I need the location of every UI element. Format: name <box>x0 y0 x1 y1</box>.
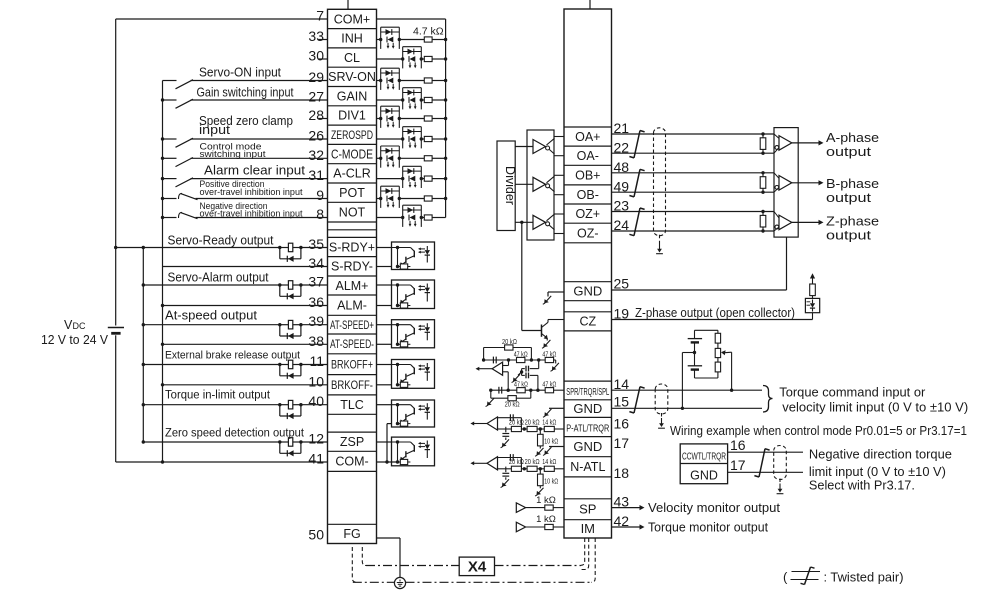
svg-text:OZ-: OZ- <box>577 226 599 240</box>
resistor 4.7k A-CLR <box>424 176 432 181</box>
pin number 33 <box>308 28 324 44</box>
svg-text:GAIN: GAIN <box>337 90 368 104</box>
relay S-RDY <box>278 243 303 262</box>
switch Servo-ON input <box>163 80 328 89</box>
pin number 17 ccwtl <box>730 457 746 473</box>
label limit input <box>809 464 946 479</box>
label velocity limit input <box>782 400 968 415</box>
svg-text:47 kΩ: 47 kΩ <box>542 379 556 388</box>
op-amp SPR input stage <box>476 345 559 392</box>
svg-text:Divider: Divider <box>503 166 517 205</box>
pin number 39 <box>308 313 324 329</box>
brace torque command <box>763 386 773 413</box>
resistor 4.7k SRV-ON <box>424 78 432 83</box>
label 20k bottom <box>505 399 520 408</box>
svg-text:Servo-Ready output: Servo-Ready output <box>168 233 274 247</box>
wire GND 17 stub <box>543 447 564 456</box>
wire input row A-CLR <box>377 177 448 180</box>
label Torque command input <box>779 385 926 400</box>
svg-text:Torque monitor output: Torque monitor output <box>648 520 769 534</box>
label At-speed output <box>165 308 258 322</box>
label Negative direction over-travel inhibition input <box>200 201 303 220</box>
pin label AT-SPEED+ <box>330 320 374 332</box>
photocoupler output TLC <box>377 400 435 427</box>
photocoupler input DIV1 <box>379 106 401 128</box>
svg-text:18: 18 <box>614 465 630 481</box>
svg-text:DIV1: DIV1 <box>338 109 366 123</box>
wire TLC return to COM- <box>385 424 391 464</box>
wire stub unconnected input <box>319 118 328 120</box>
arrow torque monitor <box>612 524 645 529</box>
label Torque in-limit output <box>165 390 271 402</box>
pin number 9 <box>316 187 324 203</box>
svg-text:OA+: OA+ <box>575 130 600 144</box>
transistor CZ open-collector <box>522 222 564 348</box>
divider block <box>497 141 517 231</box>
wire S-RDY- line <box>163 266 328 268</box>
right pin number 24 <box>614 217 630 233</box>
svg-text:ZEROSPD: ZEROSPD <box>331 130 373 142</box>
wire AT-SPEED- line <box>161 343 328 346</box>
right pin number 42 <box>614 513 630 529</box>
pin number 16 ccwtl <box>730 437 746 453</box>
svg-text:Zero speed detection output: Zero speed detection output <box>165 427 305 439</box>
photocoupler output ALM <box>377 280 435 309</box>
wire input row ZEROSPD <box>377 137 448 140</box>
svg-text:Z-phase: Z-phase <box>826 214 879 228</box>
legend twisted pair <box>783 567 904 585</box>
svg-text:25: 25 <box>614 276 630 292</box>
external pull-up for CZ <box>805 273 819 319</box>
photocoupler input NOT <box>401 205 423 227</box>
twisted pair mark ccwtl <box>754 449 769 477</box>
svg-text:SP: SP <box>579 502 596 517</box>
wire ALM- line <box>161 304 328 307</box>
pin label COM+ <box>334 12 370 26</box>
svg-text:14 kΩ: 14 kΩ <box>542 457 556 466</box>
line driver box <box>527 130 554 240</box>
svg-text:AT-SPEED+: AT-SPEED+ <box>330 320 374 332</box>
label Alarm clear input <box>204 164 306 178</box>
svg-text:47 kΩ: 47 kΩ <box>514 379 528 388</box>
label 47k row1 <box>514 349 557 358</box>
svg-text:B-phase: B-phase <box>826 177 879 191</box>
wire input row GAIN <box>377 98 448 101</box>
wire stub unconnected input <box>319 39 328 41</box>
wire GND 25 to receiver <box>612 237 787 290</box>
pin number 37 <box>308 274 324 290</box>
svg-text:input: input <box>199 123 231 137</box>
svg-text:COM-: COM- <box>335 455 368 469</box>
svg-text:CL: CL <box>344 51 360 65</box>
svg-text:12 V to 24 V: 12 V to 24 V <box>41 333 109 347</box>
pin number 38 <box>308 333 324 349</box>
pin number 26 <box>308 128 324 144</box>
svg-text:20 kΩ: 20 kΩ <box>525 417 540 426</box>
right pin label N-ATL 18 <box>570 460 605 474</box>
resistor network SPR lower <box>486 387 564 407</box>
photocoupler output BRKOFF <box>377 360 435 389</box>
label B-phase output <box>826 177 879 205</box>
svg-text:Gain switching input: Gain switching input <box>197 86 294 100</box>
svg-text:17: 17 <box>730 457 746 473</box>
svg-text:1 kΩ: 1 kΩ <box>536 514 556 525</box>
svg-text:14 kΩ: 14 kΩ <box>542 417 556 426</box>
svg-text:SPR/TRQR/SPL: SPR/TRQR/SPL <box>566 386 609 398</box>
svg-text:40: 40 <box>308 393 324 409</box>
photocoupler input ZEROSPD <box>401 127 423 149</box>
cable shield FG drop <box>352 547 366 582</box>
right pin label GND 17 <box>573 439 602 454</box>
svg-text:35: 35 <box>308 236 324 252</box>
wire encoder pair B minus <box>612 191 775 194</box>
svg-text:GND: GND <box>573 439 602 454</box>
right pin number 43 <box>614 494 630 510</box>
wire COM+ to VDC rail <box>116 18 328 20</box>
pin label S-RDY+ <box>329 240 375 254</box>
svg-text:TLC: TLC <box>340 398 364 412</box>
photocoupler output AT-SPEED <box>377 320 435 348</box>
wire COM- into ZSP box <box>377 461 398 463</box>
wire BRKOFF- line <box>161 383 328 386</box>
svg-text:Z-phase output (open collector: Z-phase output (open collector) <box>635 306 795 320</box>
pin number 8 <box>316 206 324 222</box>
label VDC <box>64 318 86 332</box>
photocoupler input C-MODE <box>379 146 401 168</box>
wire S-RDY+ line <box>142 246 328 249</box>
svg-text:GND: GND <box>690 468 718 482</box>
svg-text:37: 37 <box>308 274 324 290</box>
relay BRKOFF <box>278 360 303 379</box>
right pin number 22 <box>614 139 630 155</box>
right pin number 17 <box>614 435 630 451</box>
svg-text:16: 16 <box>730 437 746 453</box>
relay ALM <box>278 281 303 300</box>
label 20k top <box>502 337 517 346</box>
pin number 36 <box>308 294 324 310</box>
svg-text:FG: FG <box>343 527 360 541</box>
wire input row SRV-ON <box>377 79 448 82</box>
svg-text:X4: X4 <box>468 559 487 576</box>
photocoupler input CL <box>401 47 423 69</box>
termination resistor B <box>760 173 766 192</box>
resistor 4.7k DIV1 <box>424 116 432 121</box>
pin number 27 <box>308 89 324 105</box>
label Servo-Ready output <box>168 233 274 247</box>
receiver box <box>774 128 798 238</box>
pin label BRKOFF+ <box>331 360 373 372</box>
pin number 35 <box>308 236 324 252</box>
svg-text:10 kΩ: 10 kΩ <box>544 476 558 485</box>
wire COM- return <box>116 460 328 463</box>
pin label POT <box>339 186 365 200</box>
right pin number 14 <box>614 376 630 392</box>
photocoupler input A-CLR <box>401 166 423 188</box>
svg-text:20 kΩ: 20 kΩ <box>505 399 520 408</box>
svg-text:ALM-: ALM- <box>337 298 367 312</box>
svg-text:Velocity monitor output: Velocity monitor output <box>648 501 781 515</box>
svg-text:output: output <box>826 191 872 205</box>
switch POT inhibition input <box>161 193 328 200</box>
wire encoder pair Z plus <box>612 210 775 213</box>
svg-text:OB-: OB- <box>577 188 599 202</box>
wire stub unconnected input <box>319 58 328 60</box>
right pin label OZ- 24 <box>577 226 599 240</box>
connector right column <box>564 9 612 538</box>
cable shield capsule 14-15 <box>655 384 668 428</box>
svg-text:1 kΩ: 1 kΩ <box>536 495 556 506</box>
right pin number 25 <box>614 276 630 292</box>
wire encoder pair A minus <box>612 152 775 155</box>
pin number 7 <box>316 8 324 24</box>
wire encoder pair A plus <box>612 132 775 135</box>
connector CCWTL box <box>680 444 727 484</box>
wire right column top stub <box>589 0 591 9</box>
twisted pair mark A <box>629 131 644 158</box>
pin number 41 <box>308 451 324 467</box>
label 12 V to 24 V <box>41 333 109 347</box>
svg-text:CCWTL/TRQR: CCWTL/TRQR <box>682 451 726 462</box>
svg-text:P-ATL/TRQR: P-ATL/TRQR <box>566 422 609 434</box>
svg-text:IM: IM <box>581 521 595 536</box>
pin number 30 <box>308 48 324 64</box>
wire GND 15 stub <box>543 408 564 417</box>
line driver Z-phase <box>515 214 564 234</box>
relay AT-SPEED <box>278 320 303 339</box>
label Speed zero clamp input <box>199 114 293 137</box>
wire left column top stub <box>347 0 349 9</box>
wire input row DIV1 <box>377 117 448 120</box>
svg-text:A-CLR: A-CLR <box>333 167 371 181</box>
right pin number 19 <box>614 306 630 322</box>
battery VDC <box>108 328 124 334</box>
arrow Z-phase output <box>792 220 824 225</box>
pin label BRKOFF- <box>331 380 373 392</box>
svg-text:34: 34 <box>308 255 324 271</box>
svg-text:26: 26 <box>308 128 324 144</box>
switch NOT inhibition input <box>161 212 328 219</box>
pin label INH <box>341 32 363 46</box>
switch Speed zero clamp input <box>161 137 328 147</box>
junction divider Z to CZ <box>520 221 523 224</box>
label External brake release output <box>165 350 300 362</box>
svg-text:DC: DC <box>73 321 86 331</box>
label Z-phase output <box>826 214 879 242</box>
wire FG to earth <box>377 538 401 578</box>
svg-text:ALM+: ALM+ <box>335 279 368 293</box>
pin number 50 <box>308 527 324 543</box>
wire AT-SPEED+ line <box>142 323 328 326</box>
switch Control mode switching input <box>161 157 328 167</box>
right pin number 21 <box>614 120 630 136</box>
right pin label OZ+ 23 <box>575 207 600 221</box>
label Zero speed detection output <box>165 427 305 439</box>
svg-text:20 kΩ: 20 kΩ <box>509 417 524 426</box>
right pin label OB+ 48 <box>575 168 600 182</box>
twisted pair mark Z <box>629 208 644 236</box>
svg-text:30: 30 <box>308 48 324 64</box>
resistor 4.7k INH <box>424 37 432 42</box>
svg-text:38: 38 <box>308 333 324 349</box>
label Negative direction torque <box>809 446 952 461</box>
svg-text:12: 12 <box>308 431 324 447</box>
label Servo-Alarm output <box>168 271 269 285</box>
photocoupler output ZSP <box>377 437 435 466</box>
connector X4 box <box>459 557 494 576</box>
pin label FG <box>343 527 360 541</box>
cable run lower <box>353 581 592 583</box>
switch Alarm clear input <box>161 177 328 187</box>
pin number 10 <box>308 373 324 389</box>
pin label AT-SPEED- <box>330 339 374 351</box>
pin number 28 <box>308 107 324 123</box>
svg-text:output: output <box>826 145 872 159</box>
svg-text:7: 7 <box>316 8 324 24</box>
pin number 29 <box>308 69 324 85</box>
photocoupler input SRV-ON <box>379 68 401 90</box>
filter capacitors SPR <box>512 360 540 392</box>
svg-text:over-travel inhibition input: over-travel inhibition input <box>200 208 303 219</box>
svg-text:S-RDY+: S-RDY+ <box>329 240 375 254</box>
svg-text:output: output <box>826 229 872 243</box>
right pin label P-ATL/TRQR 16 <box>566 422 609 434</box>
wire CZ open collector <box>612 319 813 321</box>
resistor 4.7k CL <box>424 56 432 61</box>
svg-text:: Twisted pair): : Twisted pair) <box>824 570 904 585</box>
svg-text:Wiring example when control mo: Wiring example when control mode Pr0.01=… <box>670 424 967 438</box>
right pin number 48 <box>614 159 630 175</box>
wire ZSP+ line <box>142 440 328 443</box>
svg-text:switching input: switching input <box>200 149 266 160</box>
svg-text:Alarm clear input: Alarm clear input <box>204 164 306 178</box>
wire GND 15 <box>612 407 763 410</box>
pin number 32 <box>308 147 324 163</box>
svg-text:velocity limit input (0 V to ±: velocity limit input (0 V to ±10 V) <box>782 400 968 415</box>
pin label COM- <box>335 455 368 469</box>
svg-text:INH: INH <box>341 32 363 46</box>
line driver B-phase <box>515 175 564 194</box>
wire input row CL <box>377 57 448 60</box>
svg-text:36: 36 <box>308 294 324 310</box>
svg-text:ZSP: ZSP <box>340 435 364 449</box>
svg-text:10 kΩ: 10 kΩ <box>544 437 558 446</box>
arrow B-phase output <box>792 180 824 185</box>
svg-text:NOT: NOT <box>339 206 366 220</box>
label A-phase output <box>826 131 879 159</box>
right pin label OB- 49 <box>577 188 599 202</box>
svg-text:GND: GND <box>573 401 602 416</box>
pin label TLC <box>340 398 364 412</box>
svg-text:over-travel inhibition input: over-travel inhibition input <box>200 187 303 198</box>
pin label A-CLR <box>333 167 371 181</box>
pin label SRV-ON <box>328 70 376 84</box>
right pin number 18 <box>614 465 630 481</box>
svg-text:39: 39 <box>308 313 324 329</box>
photocoupler input POT <box>379 186 401 208</box>
svg-text:At-speed output: At-speed output <box>165 308 258 322</box>
svg-text:Torque command input or: Torque command input or <box>779 385 926 400</box>
labels resistors P-ATL <box>509 417 559 445</box>
svg-text:11: 11 <box>309 353 324 369</box>
wire input row C-MODE <box>377 157 448 160</box>
cable shield capsule encoder <box>654 128 666 254</box>
arrow velocity monitor <box>612 505 645 510</box>
svg-text:27: 27 <box>308 89 324 105</box>
rail common (switches and outputs minus) <box>162 81 164 463</box>
svg-text:10: 10 <box>308 373 324 389</box>
svg-text:17: 17 <box>614 435 630 451</box>
pin number 31 <box>308 167 324 183</box>
svg-text:33: 33 <box>308 28 324 44</box>
wire input row NOT <box>377 217 446 219</box>
label Control mode switching input <box>200 141 266 160</box>
pin label NOT <box>339 206 366 220</box>
svg-text:15: 15 <box>614 393 630 409</box>
VDC rail upper segment <box>115 19 117 326</box>
svg-text:S-RDY-: S-RDY- <box>331 260 373 274</box>
right pin label GND 25 <box>573 284 602 299</box>
buffer IM <box>516 522 564 532</box>
label 1k SP <box>536 495 556 506</box>
wire input row INH <box>377 38 448 41</box>
label 4.7 kOhm <box>413 26 444 38</box>
wire TLC+ line <box>142 403 328 406</box>
relay TLC <box>278 400 303 419</box>
pin label DIV1 <box>338 109 366 123</box>
svg-text:50: 50 <box>308 527 324 543</box>
line receiver B <box>774 173 792 192</box>
label Positive direction over-travel inhibition input <box>200 179 303 198</box>
right pin label OA+ 21 <box>575 130 600 144</box>
svg-text:47 kΩ: 47 kΩ <box>514 349 528 358</box>
svg-text:BRKOFF+: BRKOFF+ <box>331 360 373 372</box>
right pin number 16 <box>614 416 630 432</box>
pin label S-RDY- <box>331 260 373 274</box>
twisted pair mark 14-15 <box>629 387 644 413</box>
labels resistors N-ATL <box>509 457 559 485</box>
svg-text:A-phase: A-phase <box>826 131 879 145</box>
label Servo-ON input <box>199 66 281 80</box>
cable shield capsule ccwtl <box>774 446 787 494</box>
rail outputs plus <box>142 248 144 443</box>
wire BRKOFF+ line <box>142 363 328 366</box>
right pin label SPR/TRQR/SPL 14 <box>566 386 609 398</box>
pin label C-MODE <box>331 147 373 161</box>
svg-text:CZ: CZ <box>579 315 596 329</box>
resistor 4.7k ZEROSPD <box>424 136 432 141</box>
svg-text:29: 29 <box>308 69 324 85</box>
svg-text:POT: POT <box>339 186 365 200</box>
svg-text:20 kΩ: 20 kΩ <box>525 457 540 466</box>
wire input row POT <box>377 197 448 200</box>
pin label ALM- <box>337 298 367 312</box>
label Gain switching input <box>197 86 294 100</box>
label wiring example <box>670 424 967 438</box>
svg-text:Select with Pr3.17.: Select with Pr3.17. <box>809 477 915 492</box>
pull-up bus <box>445 19 447 218</box>
arrow A-phase output <box>792 140 824 145</box>
svg-text:4.7 kΩ: 4.7 kΩ <box>413 26 444 38</box>
pin label ZEROSPD <box>331 130 373 142</box>
pin number 12 <box>308 431 324 447</box>
svg-text:SRV-ON: SRV-ON <box>328 70 376 84</box>
svg-text:GND: GND <box>573 284 602 299</box>
right pin label SP 43 <box>579 502 596 517</box>
right pin number 15 <box>614 393 630 409</box>
photocoupler input GAIN <box>401 88 423 110</box>
line driver A-phase <box>515 137 564 156</box>
svg-text:OZ+: OZ+ <box>575 207 600 221</box>
